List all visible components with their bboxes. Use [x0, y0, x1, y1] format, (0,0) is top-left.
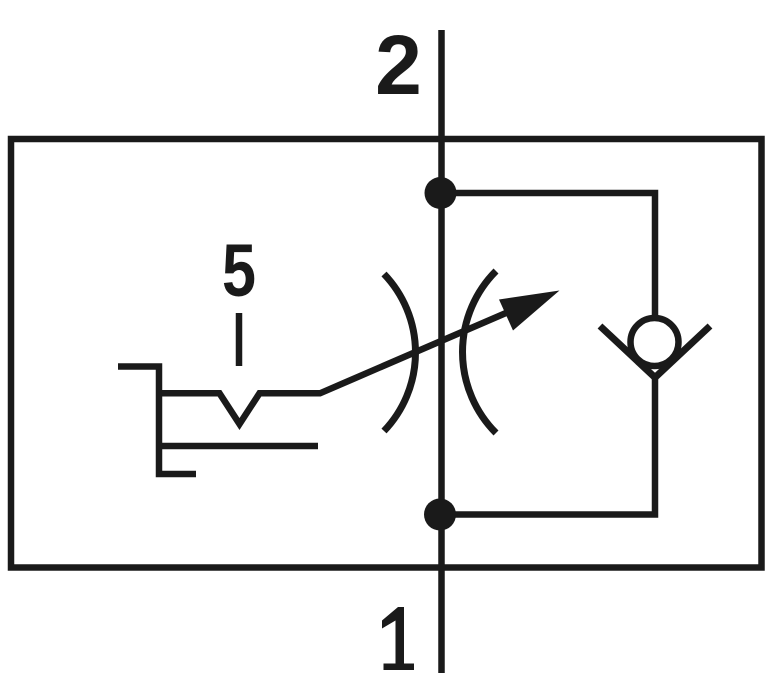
- label 5 pointer tick: [236, 313, 243, 366]
- manual adjuster bracket: [118, 367, 196, 475]
- manual adjuster lower bar (wire): [159, 443, 318, 450]
- check valve seat (V): [600, 326, 710, 378]
- node junction top (dot): [425, 177, 457, 209]
- adjustment lever with detent notch (wire): [159, 308, 517, 424]
- node junction bottom (dot): [424, 499, 456, 531]
- main port line 2-1 (wire): [438, 30, 445, 673]
- svg-text:2: 2: [375, 18, 422, 112]
- wire bottom branch from check valve: [441, 377, 655, 515]
- throttle left arc: [384, 274, 415, 431]
- adjustment arrow head: [499, 291, 560, 331]
- wire top branch to check valve: [441, 193, 655, 316]
- port label 1: [382, 607, 414, 670]
- check valve ball (circle): [631, 318, 679, 366]
- throttle right arc: [463, 271, 496, 433]
- enclosure box: [11, 139, 762, 568]
- svg-text:5: 5: [222, 229, 256, 312]
